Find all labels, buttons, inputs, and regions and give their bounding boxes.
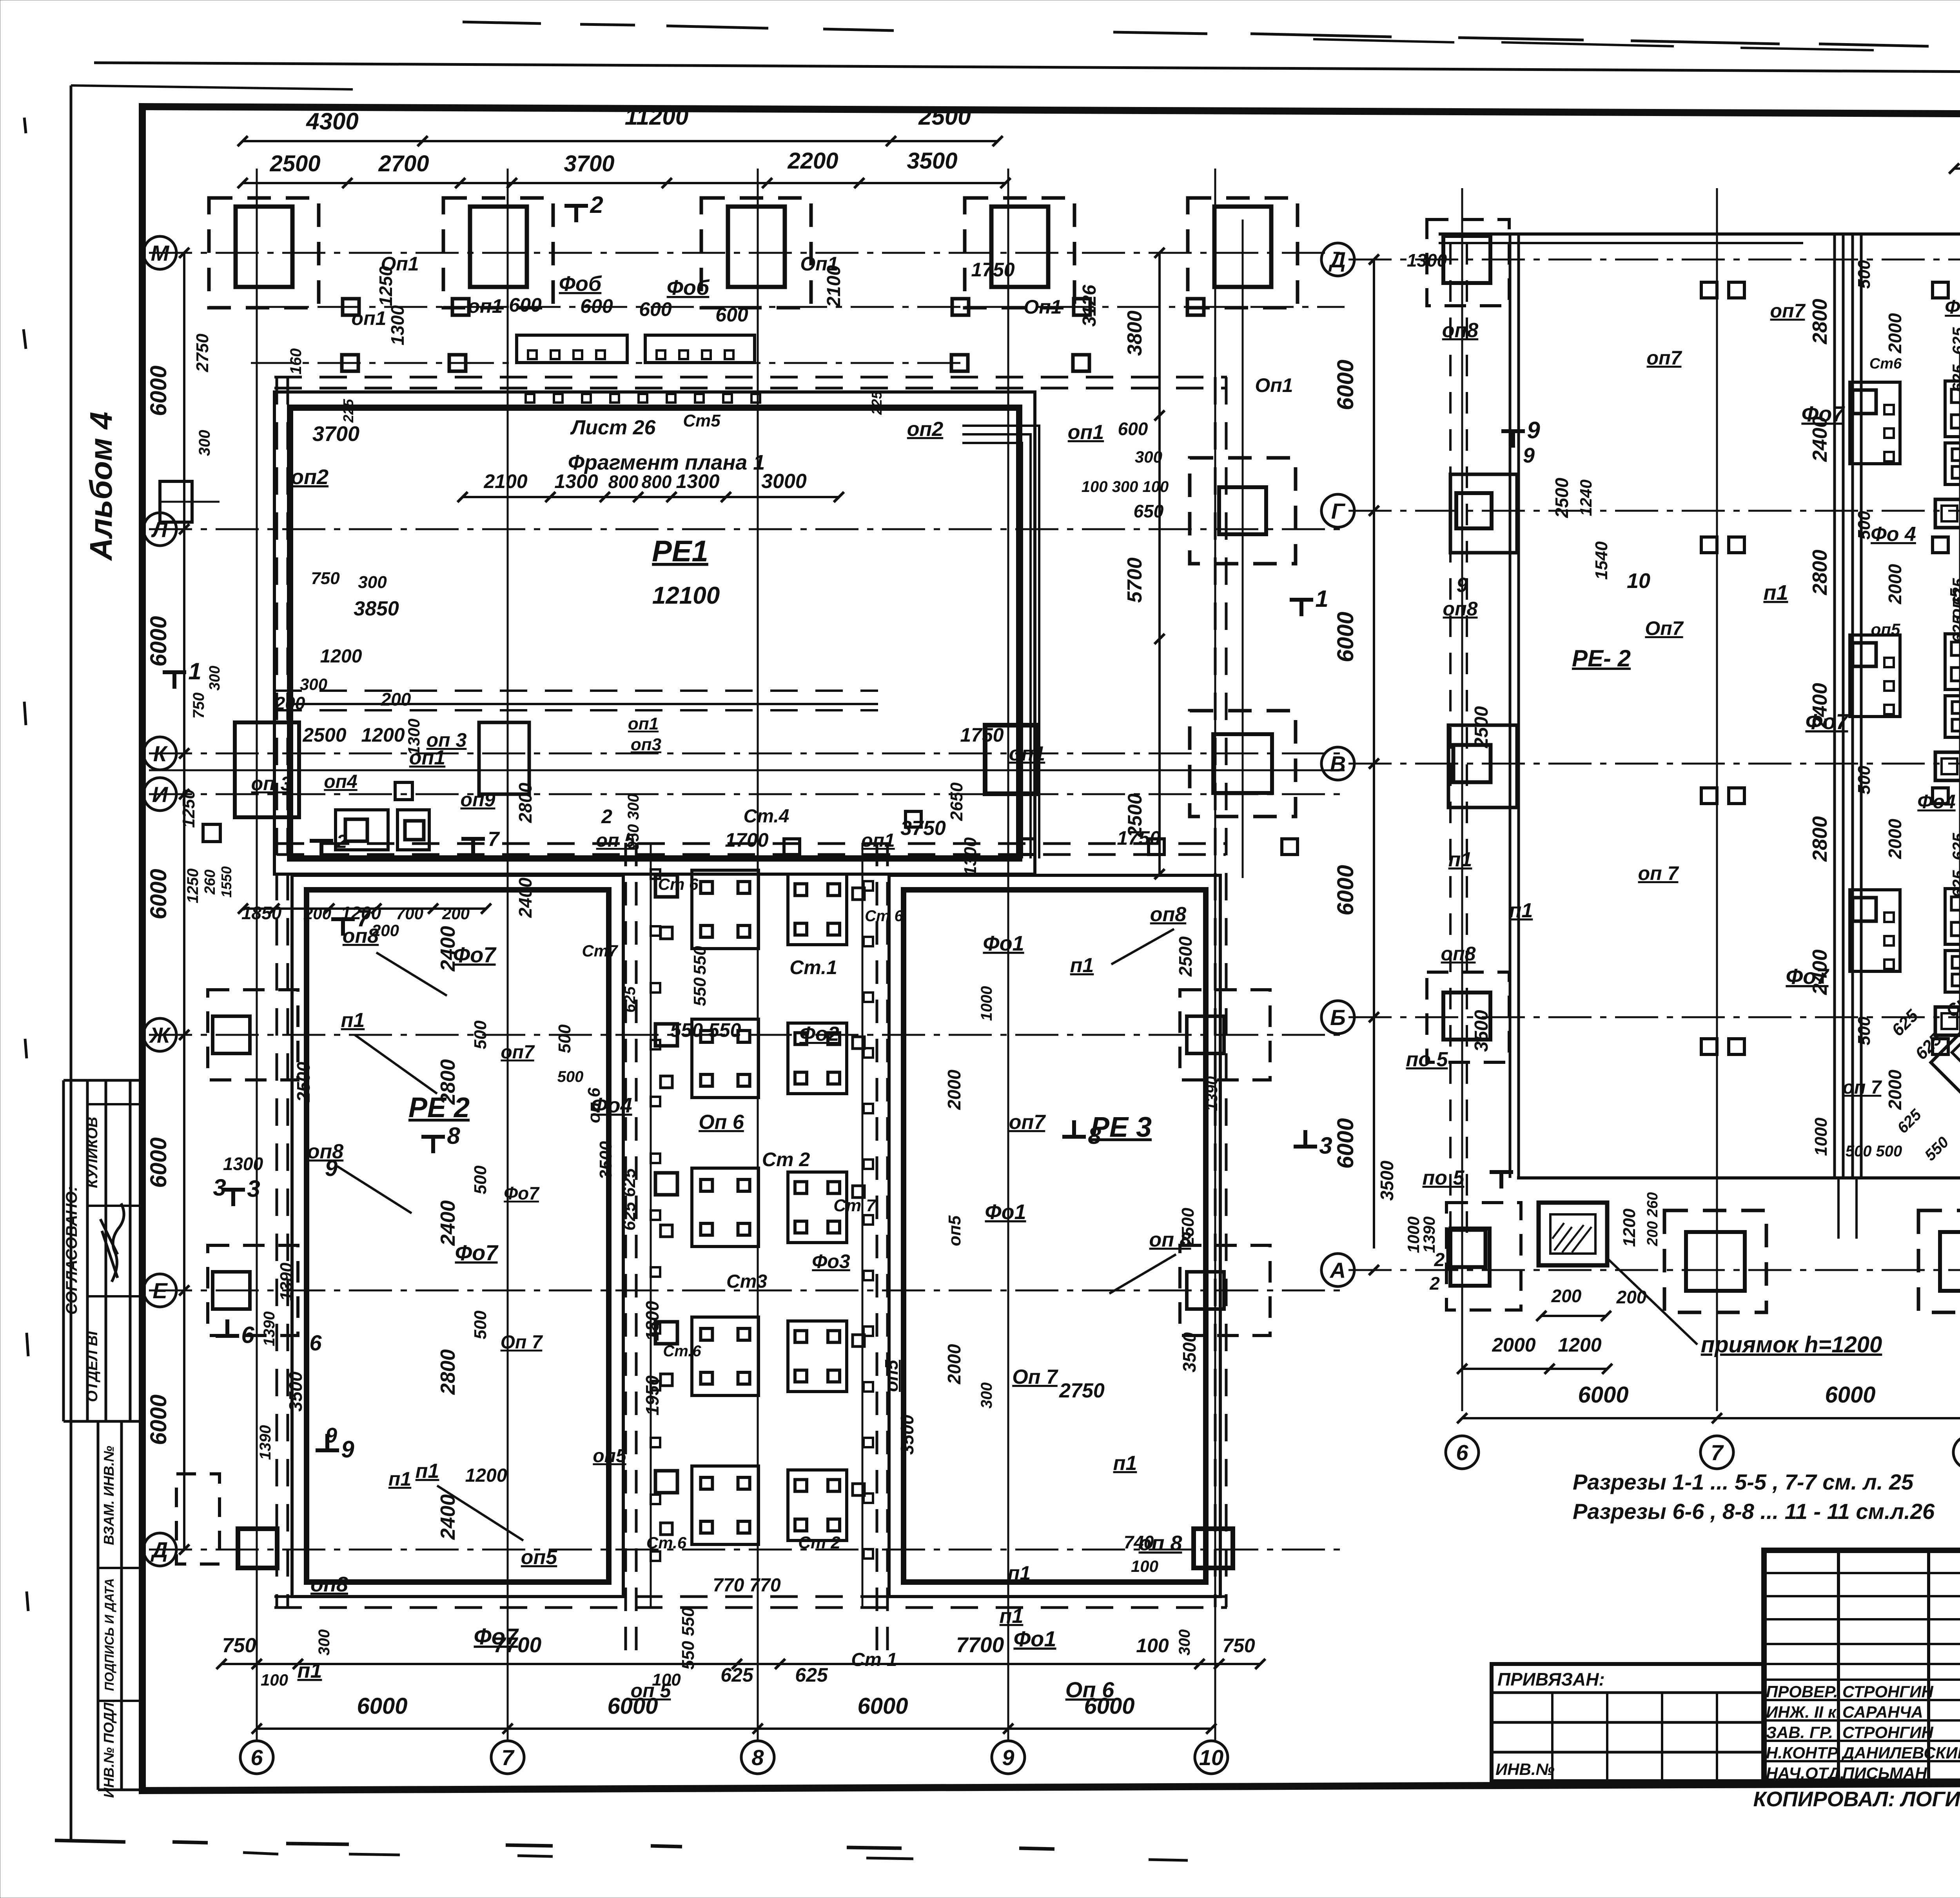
svg-text:3: 3	[1319, 1132, 1332, 1159]
svg-text:Е: Е	[152, 1278, 168, 1303]
svg-text:Ст 6: Ст 6	[865, 907, 904, 925]
svg-text:9: 9	[1002, 1745, 1014, 1770]
svg-text:КУЛИКОВ: КУЛИКОВ	[84, 1117, 101, 1188]
svg-text:1200: 1200	[361, 724, 405, 746]
svg-text:1300: 1300	[387, 305, 408, 345]
svg-text:Д: Д	[1328, 247, 1346, 272]
svg-text:1750: 1750	[960, 724, 1004, 746]
svg-text:11200: 11200	[625, 103, 688, 130]
svg-text:Фо 4: Фо 4	[1871, 523, 1916, 546]
svg-text:2500: 2500	[1175, 936, 1196, 977]
svg-text:п1: п1	[1763, 581, 1788, 604]
svg-text:160: 160	[287, 348, 305, 375]
svg-text:Ст 2: Ст 2	[762, 1149, 810, 1170]
svg-text:3500: 3500	[1179, 1332, 1200, 1372]
svg-text:3: 3	[213, 1174, 226, 1201]
svg-text:500: 500	[471, 1165, 490, 1194]
svg-text:оп5: оп5	[881, 1359, 902, 1392]
svg-text:Фо7: Фо7	[1801, 401, 1845, 426]
svg-text:оп7: оп7	[1009, 1111, 1046, 1134]
svg-text:оп2: оп2	[907, 418, 944, 441]
svg-text:800: 800	[608, 472, 639, 492]
svg-text:3500: 3500	[1471, 1010, 1492, 1052]
svg-text:10: 10	[1627, 569, 1650, 593]
svg-text:2400: 2400	[437, 1494, 459, 1540]
svg-text:САРАНЧА: САРАНЧА	[1842, 1703, 1923, 1721]
svg-text:1240: 1240	[1577, 479, 1595, 516]
svg-text:ДАНИЛЕВСКИЙ: ДАНИЛЕВСКИЙ	[1841, 1743, 1960, 1762]
svg-text:3126: 3126	[1079, 285, 1100, 327]
svg-text:Ст5: Ст5	[683, 411, 720, 430]
svg-text:300: 300	[196, 430, 213, 456]
svg-text:6000: 6000	[857, 1693, 908, 1719]
svg-text:оп8: оп8	[1443, 598, 1478, 620]
svg-text:Ст3: Ст3	[726, 1271, 767, 1292]
svg-text:оп 8: оп 8	[1138, 1531, 1182, 1555]
svg-text:оп2: оп2	[291, 465, 328, 489]
svg-text:Фо7: Фо7	[455, 1240, 499, 1265]
svg-text:И: И	[152, 782, 169, 807]
svg-text:1390: 1390	[1420, 1216, 1438, 1253]
svg-text:ИНЖ. II к.: ИНЖ. II к.	[1766, 1703, 1841, 1721]
svg-text:2500: 2500	[1471, 706, 1492, 748]
svg-text:Оп 6: Оп 6	[699, 1111, 744, 1134]
svg-text:200: 200	[381, 689, 411, 709]
svg-text:6000: 6000	[146, 869, 171, 919]
svg-text:СТРОНГИН: СТРОНГИН	[1842, 1682, 1934, 1701]
svg-text:750: 750	[222, 1634, 256, 1657]
svg-text:п1: п1	[1070, 954, 1094, 977]
svg-text:625: 625	[1949, 364, 1960, 392]
svg-text:100 300 100: 100 300 100	[1082, 478, 1169, 495]
svg-text:1950: 1950	[642, 1375, 662, 1415]
svg-text:оп1: оп1	[1009, 742, 1045, 765]
svg-text:10: 10	[1199, 1745, 1223, 1770]
svg-text:1: 1	[1315, 586, 1328, 612]
svg-text:8: 8	[1088, 1123, 1101, 1149]
svg-text:К: К	[153, 741, 168, 766]
svg-text:Ст.1: Ст.1	[789, 956, 837, 978]
svg-text:5700: 5700	[1123, 557, 1146, 603]
svg-text:п1: п1	[341, 1009, 365, 1032]
svg-text:2400: 2400	[515, 877, 535, 918]
svg-text:6: 6	[250, 1745, 263, 1770]
svg-text:СОГЛАСОВАНО:: СОГЛАСОВАНО:	[63, 1186, 80, 1315]
svg-text:6000: 6000	[1578, 1382, 1628, 1408]
svg-text:3500: 3500	[897, 1414, 917, 1455]
svg-text:Н.КОНТР: Н.КОНТР	[1766, 1744, 1838, 1762]
svg-text:Разрезы 6-6 , 8-8 ... 11 - 11: Разрезы 6-6 , 8-8 ... 11 - 11 см.л.26	[1573, 1499, 1935, 1524]
svg-text:7: 7	[1711, 1440, 1724, 1465]
svg-text:550: 550	[690, 977, 710, 1006]
svg-text:2000: 2000	[1492, 1334, 1535, 1356]
svg-text:оп1: оп1	[352, 307, 387, 329]
svg-text:770 770: 770 770	[713, 1575, 781, 1596]
svg-text:оп4: оп4	[324, 771, 357, 792]
svg-text:оп7: оп7	[501, 1042, 535, 1063]
svg-text:2800: 2800	[1809, 550, 1831, 595]
svg-text:6000: 6000	[146, 1394, 171, 1445]
svg-text:2800: 2800	[437, 1059, 459, 1105]
svg-text:оп5: оп5	[521, 1546, 558, 1569]
svg-text:п1: п1	[1448, 848, 1472, 871]
svg-text:225: 225	[340, 399, 356, 423]
svg-text:приямок h=1200: приямок h=1200	[1701, 1332, 1882, 1357]
svg-text:7700: 7700	[956, 1633, 1004, 1657]
svg-text:1800: 1800	[642, 1301, 662, 1341]
svg-text:2400: 2400	[437, 926, 459, 972]
svg-text:625: 625	[1949, 327, 1960, 355]
svg-text:2500: 2500	[293, 1062, 314, 1102]
svg-text:НАЧ.ОТД.: НАЧ.ОТД.	[1766, 1764, 1844, 1782]
svg-text:2500: 2500	[1552, 477, 1572, 518]
svg-text:750: 750	[1222, 1635, 1255, 1657]
svg-text:3700: 3700	[564, 151, 614, 176]
svg-text:625 625: 625 625	[620, 1168, 639, 1231]
svg-text:9: 9	[1457, 574, 1468, 597]
svg-text:2: 2	[590, 192, 603, 218]
svg-text:М: М	[151, 241, 170, 265]
svg-text:500: 500	[471, 1310, 490, 1339]
svg-text:1250: 1250	[376, 266, 396, 306]
svg-text:Разрезы 1-1 ... 5-5 , 7-7 см: Разрезы 1-1 ... 5-5 , 7-7 см. л. 25	[1573, 1470, 1914, 1494]
svg-text:оп5: оп5	[945, 1215, 964, 1246]
svg-text:оп7: оп7	[1770, 300, 1806, 322]
svg-text:550 550: 550 550	[670, 1019, 741, 1041]
svg-text:Ст.4: Ст.4	[744, 806, 789, 827]
svg-text:Ст 1: Ст 1	[851, 1649, 897, 1670]
svg-text:Ст 7: Ст 7	[833, 1196, 877, 1215]
svg-text:2100: 2100	[483, 470, 527, 492]
svg-text:950 300: 950 300	[625, 794, 642, 851]
svg-text:оп 3: оп 3	[426, 729, 467, 751]
svg-text:1200: 1200	[465, 1465, 507, 1486]
svg-text:ПОДПИСЬ И ДАТА: ПОДПИСЬ И ДАТА	[102, 1578, 116, 1691]
svg-text:200: 200	[1551, 1286, 1582, 1306]
svg-text:п1: п1	[416, 1460, 439, 1482]
svg-text:100: 100	[1131, 1557, 1158, 1575]
svg-text:Оп1: Оп1	[1024, 296, 1062, 318]
svg-text:Фо7: Фо7	[1805, 709, 1849, 734]
svg-text:Фо7: Фо7	[504, 1183, 540, 1203]
svg-text:100: 100	[1136, 1635, 1169, 1657]
svg-text:1700: 1700	[725, 829, 768, 851]
svg-text:1300: 1300	[223, 1154, 263, 1174]
svg-text:1200: 1200	[320, 646, 362, 667]
svg-text:Фо1: Фо1	[983, 932, 1024, 955]
svg-text:п1: п1	[1000, 1605, 1024, 1628]
svg-text:оп 5: оп 5	[631, 1680, 671, 1702]
svg-text:ЗАВ. ГР.: ЗАВ. ГР.	[1766, 1723, 1833, 1742]
svg-text:оп9: оп9	[461, 789, 495, 811]
svg-text:по 5: по 5	[1423, 1167, 1465, 1189]
svg-text:300: 300	[1135, 448, 1162, 466]
svg-text:Оп 7: Оп 7	[501, 1332, 543, 1353]
svg-text:оп1: оп1	[628, 714, 659, 733]
svg-text:500: 500	[1855, 766, 1874, 795]
svg-text:Фо7: Фо7	[1786, 964, 1829, 989]
svg-text:750: 750	[190, 693, 207, 719]
svg-text:9: 9	[1523, 444, 1535, 467]
svg-text:2650: 2650	[947, 782, 966, 821]
svg-text:3850: 3850	[354, 597, 399, 620]
svg-text:Б: Б	[1330, 1005, 1346, 1030]
svg-text:СТРОНГИН: СТРОНГИН	[1842, 1723, 1934, 1742]
svg-text:2: 2	[336, 831, 347, 852]
svg-text:300: 300	[1176, 1629, 1193, 1656]
svg-text:1: 1	[188, 658, 201, 684]
svg-text:625: 625	[621, 986, 639, 1013]
svg-text:1000: 1000	[978, 986, 995, 1021]
svg-text:300: 300	[207, 666, 223, 690]
svg-text:оп8: оп8	[1150, 903, 1187, 926]
svg-text:6000: 6000	[1333, 359, 1358, 410]
svg-text:оп5: оп5	[1871, 620, 1900, 639]
svg-text:Оп 7: Оп 7	[1012, 1366, 1058, 1388]
svg-text:500 500: 500 500	[1846, 1143, 1902, 1160]
svg-text:8: 8	[751, 1745, 764, 1770]
svg-text:1250: 1250	[179, 789, 198, 828]
svg-text:оп8: оп8	[310, 1573, 348, 1596]
svg-text:2: 2	[601, 806, 612, 827]
svg-text:2400: 2400	[437, 1200, 459, 1246]
svg-text:Лист 26: Лист 26	[570, 416, 656, 439]
svg-text:6000: 6000	[146, 616, 171, 666]
svg-text:ОТДЕЛ ВГ: ОТДЕЛ ВГ	[84, 1326, 101, 1402]
svg-text:1390: 1390	[277, 1263, 296, 1301]
svg-text:2200: 2200	[787, 148, 838, 174]
svg-text:п1: п1	[1509, 899, 1533, 922]
svg-text:Фо7: Фо7	[453, 942, 497, 967]
svg-text:3500: 3500	[1377, 1160, 1397, 1201]
svg-text:600: 600	[715, 304, 748, 326]
svg-text:Ст.6: Ст.6	[646, 1533, 687, 1552]
svg-text:Г: Г	[1331, 499, 1346, 523]
svg-text:100: 100	[261, 1671, 288, 1689]
svg-text:6000: 6000	[146, 1137, 171, 1188]
svg-text:ПРОВЕР.: ПРОВЕР.	[1766, 1682, 1838, 1701]
svg-text:800: 800	[642, 472, 672, 492]
svg-text:ИНВ.№: ИНВ.№	[1495, 1760, 1555, 1778]
svg-text:3800: 3800	[1123, 310, 1146, 356]
svg-text:Оп1: Оп1	[1255, 374, 1293, 396]
svg-text:по 5: по 5	[1406, 1048, 1448, 1071]
svg-text:4300: 4300	[306, 108, 358, 134]
svg-text:А: А	[1329, 1258, 1346, 1283]
svg-text:2800: 2800	[1809, 816, 1831, 862]
svg-text:6000: 6000	[1333, 865, 1358, 915]
svg-text:500: 500	[471, 1020, 490, 1049]
svg-text:300: 300	[358, 573, 387, 592]
svg-text:Фо1: Фо1	[985, 1200, 1026, 1224]
svg-text:ВЗАМ. ИНВ.№: ВЗАМ. ИНВ.№	[101, 1446, 117, 1545]
svg-text:12100: 12100	[652, 582, 720, 609]
svg-text:500: 500	[555, 1024, 574, 1053]
svg-text:9: 9	[1527, 417, 1540, 443]
svg-text:600: 600	[509, 294, 542, 316]
svg-text:200: 200	[1616, 1287, 1647, 1307]
svg-text:6000: 6000	[146, 365, 171, 416]
svg-text:6: 6	[309, 1330, 322, 1355]
svg-text:1550: 1550	[218, 866, 234, 898]
svg-text:1000: 1000	[1811, 1118, 1831, 1156]
svg-text:6: 6	[1456, 1440, 1468, 1465]
svg-text:7: 7	[501, 1745, 515, 1770]
svg-text:оп8: оп8	[1442, 319, 1479, 342]
svg-text:Фо2: Фо2	[799, 1023, 839, 1045]
svg-text:2500: 2500	[269, 151, 320, 176]
svg-text:1390: 1390	[257, 1425, 274, 1460]
svg-text:2000: 2000	[1885, 313, 1905, 354]
svg-text:700: 700	[396, 904, 423, 923]
svg-text:600: 600	[639, 298, 672, 320]
svg-text:2: 2	[1429, 1273, 1440, 1294]
svg-text:3500: 3500	[285, 1371, 306, 1412]
svg-text:500: 500	[557, 1068, 584, 1085]
svg-text:300: 300	[316, 1629, 333, 1656]
svg-text:2000: 2000	[944, 1344, 964, 1384]
svg-text:550 550: 550 550	[679, 1607, 698, 1670]
svg-text:2000: 2000	[944, 1069, 964, 1110]
svg-text:3: 3	[247, 1176, 260, 1202]
svg-text:600: 600	[1118, 419, 1148, 439]
svg-text:2700: 2700	[378, 151, 429, 176]
svg-text:500: 500	[1855, 1016, 1874, 1045]
svg-text:625: 625	[720, 1664, 754, 1686]
svg-text:Фо3: Фо3	[812, 1250, 850, 1272]
svg-text:1200: 1200	[1558, 1334, 1601, 1356]
svg-text:РЕ1: РЕ1	[652, 535, 708, 568]
svg-text:2000: 2000	[1885, 1069, 1905, 1110]
svg-text:2000: 2000	[1885, 564, 1905, 604]
svg-text:6000: 6000	[357, 1693, 407, 1719]
svg-text:3500: 3500	[907, 148, 957, 174]
svg-text:625: 625	[1949, 870, 1960, 898]
svg-text:Фо4: Фо4	[1917, 791, 1955, 813]
svg-text:2500: 2500	[918, 103, 971, 130]
svg-text:300: 300	[978, 1383, 995, 1409]
svg-text:9: 9	[341, 1436, 354, 1463]
svg-text:3000: 3000	[761, 470, 807, 493]
svg-text:Ст7: Ст7	[582, 942, 618, 960]
svg-text:9: 9	[325, 1156, 338, 1181]
svg-text:оп3: оп3	[631, 735, 661, 754]
svg-text:6000: 6000	[1333, 611, 1358, 662]
svg-text:2800: 2800	[437, 1349, 459, 1395]
svg-text:Ст 6: Ст 6	[658, 875, 699, 893]
svg-text:оп 7: оп 7	[1638, 862, 1679, 884]
svg-text:200 260: 200 260	[1644, 1192, 1661, 1246]
svg-text:оп1: оп1	[1068, 421, 1104, 444]
svg-text:1300: 1300	[405, 719, 423, 755]
svg-text:п1: п1	[1008, 1562, 1031, 1584]
svg-text:ПИСЬМАН: ПИСЬМАН	[1842, 1764, 1927, 1782]
svg-text:7: 7	[488, 828, 500, 851]
svg-text:Ж: Ж	[149, 1023, 171, 1047]
svg-text:1540: 1540	[1592, 541, 1611, 580]
svg-text:В: В	[1330, 751, 1346, 776]
svg-text:260: 260	[202, 869, 218, 895]
svg-text:РЕ- 2: РЕ- 2	[1572, 645, 1631, 671]
svg-text:Ст6: Ст6	[1869, 356, 1902, 372]
svg-text:600: 600	[580, 295, 613, 317]
svg-text:2100: 2100	[824, 265, 844, 307]
svg-text:оп1: оп1	[468, 295, 503, 317]
svg-text:п1: п1	[297, 1659, 322, 1682]
svg-text:Альбом 4: Альбом 4	[83, 412, 118, 561]
svg-text:оп 3: оп 3	[251, 773, 292, 795]
svg-text:1250: 1250	[184, 869, 201, 904]
svg-text:2800: 2800	[515, 782, 535, 823]
svg-text:225: 225	[869, 391, 885, 415]
svg-text:оп7: оп7	[1647, 347, 1682, 369]
svg-text:п1: п1	[1113, 1452, 1137, 1475]
svg-text:оп 7: оп 7	[1843, 1077, 1882, 1098]
svg-text:550: 550	[690, 946, 710, 975]
svg-text:КОПИРОВАЛ: ЛОГИНОВА: КОПИРОВАЛ: ЛОГИНОВА	[1753, 1787, 1960, 1811]
svg-text:оп 6: оп 6	[584, 1087, 604, 1123]
svg-text:7: 7	[357, 905, 371, 931]
svg-text:1300: 1300	[554, 470, 598, 492]
svg-text:1390: 1390	[261, 1312, 278, 1346]
svg-text:200: 200	[442, 904, 470, 923]
svg-text:2750: 2750	[193, 334, 212, 372]
svg-text:1750: 1750	[971, 259, 1014, 281]
svg-text:1300: 1300	[676, 470, 719, 492]
svg-text:6000: 6000	[1333, 1118, 1358, 1169]
svg-text:500: 500	[1855, 260, 1874, 289]
svg-text:3500: 3500	[596, 1141, 615, 1179]
svg-text:п1: п1	[388, 1468, 411, 1490]
svg-text:Ст.6: Ст.6	[663, 1343, 701, 1360]
svg-text:оп8: оп8	[1441, 943, 1476, 965]
svg-text:Фо1: Фо1	[1013, 1626, 1056, 1651]
svg-text:2750: 2750	[1059, 1379, 1105, 1402]
svg-text:2000: 2000	[1885, 818, 1905, 859]
svg-text:2500: 2500	[1178, 1208, 1198, 1247]
svg-text:2500: 2500	[302, 724, 346, 746]
svg-text:750: 750	[311, 569, 340, 588]
svg-text:Оп7: Оп7	[1645, 617, 1684, 639]
svg-text:Д: Д	[151, 1537, 168, 1562]
svg-text:Ст 2: Ст 2	[798, 1533, 840, 1552]
svg-text:Фо7: Фо7	[474, 1624, 519, 1649]
svg-text:Фоб: Фоб	[559, 272, 602, 296]
svg-text:8: 8	[447, 1123, 460, 1149]
svg-text:3700: 3700	[312, 422, 359, 446]
svg-text:6000: 6000	[1825, 1382, 1875, 1408]
svg-text:оп5: оп5	[593, 1446, 627, 1466]
svg-text:Фо4: Фо4	[1945, 296, 1960, 318]
svg-text:оп5: оп5	[1947, 588, 1960, 619]
svg-text:1300: 1300	[1407, 250, 1447, 270]
svg-text:625: 625	[795, 1664, 828, 1686]
svg-text:Фоб: Фоб	[667, 276, 710, 299]
svg-text:1200: 1200	[1620, 1208, 1639, 1247]
svg-text:625: 625	[1949, 833, 1960, 860]
svg-text:2800: 2800	[1809, 299, 1831, 345]
svg-text:ИНВ.№ ПОДЛ.: ИНВ.№ ПОДЛ.	[101, 1698, 117, 1798]
svg-text:Оп 6: Оп 6	[1065, 1677, 1114, 1702]
svg-text:ПРИВЯЗАН:: ПРИВЯЗАН:	[1497, 1669, 1605, 1689]
